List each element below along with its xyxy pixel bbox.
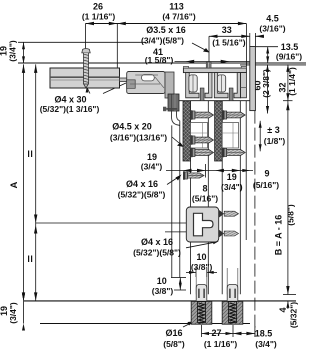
wire wall line dashed: [254, 111, 256, 335]
hanger plate door one: [165, 72, 179, 111]
rail wall-mount profile: [50, 68, 133, 88]
svg-text:(3/8"): (3/8"): [152, 286, 174, 296]
dimension 26 (1 1/16 inch): [82, 2, 247, 26]
dimension 32 (1 1/4 inch): [278, 64, 298, 100]
dimension 27 (1 1/16 inch): [202, 325, 238, 349]
svg-text:(4 7/16"): (4 7/16"): [162, 12, 195, 22]
trolley bracket door one: [127, 72, 165, 94]
dimension 60 (2 3/8 inch): [253, 64, 272, 113]
svg-text:(3/4"): (3/4"): [8, 40, 18, 62]
svg-text:(1 5/16"): (1 5/16"): [212, 38, 245, 48]
screw O4x16 bottom of door two strip: [183, 171, 204, 180]
svg-text:10: 10: [196, 252, 206, 262]
svg-text:(5/32"): (5/32"): [289, 302, 299, 328]
svg-text:113: 113: [169, 2, 184, 12]
wire extension line x209: [208, 36, 210, 61]
label screw O4.5 x 20: [110, 122, 184, 148]
wire extension tick x205.5: [205, 164, 207, 178]
svg-text:(5/8"): (5/8"): [163, 339, 185, 349]
wall mounting plate right: [250, 47, 256, 111]
dimension 113 (4 7/16 inch): [162, 2, 246, 26]
dimension 19 (3/4 inch) top left: [0, 40, 25, 63]
label screw O4 x 30: [40, 83, 126, 114]
svg-text:33: 33: [222, 25, 232, 35]
dimension 9 (5/16 inch) wall gap: [242, 169, 279, 191]
label dimension 41 (1 5/8 inch): [145, 47, 174, 65]
dimension 4 (5/32 inch) floor clearance: [278, 295, 299, 329]
svg-text:(1 1/4"): (1 1/4"): [287, 67, 297, 96]
svg-text:19: 19: [147, 152, 157, 162]
roller trolley channel two: [217, 75, 225, 92]
wire mid division line: [36, 222, 187, 224]
svg-text:(9/16"): (9/16"): [276, 52, 302, 62]
profile strip door two hatched: [183, 101, 191, 161]
svg-text:(3/4")(5/8"): (3/4")(5/8"): [141, 36, 184, 46]
screw O4.5x20 door two row three: [191, 148, 214, 158]
svg-text:10: 10: [157, 276, 167, 286]
hanger bolt door two: [200, 88, 204, 101]
label screw O4 x 16 lower: [133, 237, 219, 258]
dimension 19 (3/4 inch) bottom left: [0, 294, 25, 331]
hanger bolt door three: [229, 88, 233, 101]
svg-text:± 3: ± 3: [267, 125, 279, 135]
door three panel lines: [222, 101, 240, 295]
wire extension line x246: [245, 101, 247, 240]
wire top reference line: [18, 41, 146, 43]
dimension 41 line: [175, 60, 250, 63]
svg-text:B = A - 16: B = A - 16: [274, 215, 284, 256]
screw O4.5x20 door two row one: [191, 110, 214, 120]
profile strip door three hatched: [215, 101, 223, 161]
dimension 33 (1 5/16 inch): [209, 25, 250, 48]
label screw O3.5 x 16: [141, 25, 210, 53]
wire extension line screw axis: [85, 24, 87, 69]
connector housing door two: [191, 123, 208, 149]
door one panel lines: [172, 121, 180, 278]
svg-text:Ø4.5 x 20: Ø4.5 x 20: [112, 122, 152, 132]
svg-text:13.5: 13.5: [281, 42, 299, 52]
dimension A overall height: [9, 64, 25, 301]
svg-text:(5/32")(5/8"): (5/32")(5/8"): [133, 248, 181, 258]
dimension 18.5 (3/4 inch): [233, 326, 277, 349]
door two panel lines: [191, 101, 209, 295]
dimension 19 (3/4 inch) door two thickness: [221, 169, 243, 192]
svg-text:9: 9: [264, 169, 269, 179]
svg-text:(3/16"): (3/16"): [259, 24, 285, 34]
label dowel O16 (5/8 inch): [163, 322, 193, 350]
dimension 10 (3/8 inch) horizontal: [186, 252, 217, 277]
track end ridges: [183, 66, 246, 68]
screw O4x16 guide upper: [219, 210, 239, 218]
floor guide door two: [191, 268, 212, 324]
track double running profile: [183, 68, 246, 98]
svg-text:(1 1/16"): (1 1/16"): [82, 12, 115, 22]
label screw O4 x 16 upper: [118, 175, 182, 200]
dimension 13.5 (9/16 inch): [266, 42, 302, 63]
svg-text:(1/8"): (1/8"): [264, 136, 286, 146]
svg-text:(3/4"): (3/4"): [255, 339, 277, 349]
svg-text:(3/4"): (3/4"): [8, 302, 18, 324]
svg-text:26: 26: [93, 2, 103, 12]
dimension chain line at door bottom: [166, 170, 253, 172]
svg-text:19: 19: [227, 172, 237, 182]
screw O4.5x20 door two row two: [191, 135, 214, 145]
wire door top edge line: [168, 100, 255, 102]
hanger bend to door one: [172, 111, 180, 125]
svg-text:(3/8"): (3/8"): [191, 262, 213, 272]
svg-text:(3/4"): (3/4"): [221, 182, 243, 192]
wire lower floor line: [40, 323, 250, 325]
svg-text:A: A: [9, 181, 20, 188]
svg-text:(5/16"): (5/16"): [253, 180, 279, 190]
guide piece floor bracket: [186, 207, 218, 242]
svg-text:(5/32")(1 3/16"): (5/32")(1 3/16"): [40, 104, 100, 114]
svg-text:(3/4"): (3/4"): [141, 162, 163, 172]
wire extension line track end: [245, 24, 247, 68]
svg-text:(5/8"): (5/8"): [286, 204, 296, 226]
wire ceiling line: [18, 62, 306, 64]
screw O4x16 guide lower: [219, 230, 239, 238]
wire extension line x117: [116, 24, 118, 72]
screw O4.5x20 door three row one: [222, 110, 245, 120]
svg-text:32: 32: [278, 82, 288, 92]
svg-text:4.5: 4.5: [266, 14, 279, 24]
connector housing door three: [222, 123, 238, 149]
svg-text:4: 4: [278, 307, 288, 312]
roller trolley channel one: [189, 75, 197, 92]
screw O4.5x20 door three row three: [222, 148, 245, 158]
svg-text:(2 3/8"): (2 3/8"): [261, 69, 271, 98]
svg-text:18.5: 18.5: [255, 329, 273, 339]
svg-text:8: 8: [202, 184, 207, 194]
wire floor line: [24, 300, 296, 302]
dimension 19 (3/4 inch) door one thickness: [141, 152, 206, 172]
svg-text:Ø3.5 x 16: Ø3.5 x 16: [146, 25, 186, 35]
screw tab O3.5x16 on track: [206, 62, 211, 68]
wire right wall top line: [250, 46, 278, 48]
dimension equal segment lower: [29, 223, 38, 301]
floor guide door three: [222, 268, 243, 324]
dimension 8 (5/16 inch) gap: [192, 169, 224, 204]
svg-text:(1 5/8"): (1 5/8"): [145, 55, 174, 65]
svg-text:(5/32")(5/8"): (5/32")(5/8"): [118, 190, 166, 200]
dimension plus minus 3 (1/8 inch) adjustment: [259, 121, 286, 152]
svg-text:(5/16"): (5/16"): [192, 194, 218, 204]
svg-text:Ø4 x 16: Ø4 x 16: [141, 237, 173, 247]
dimension B equals A minus 16 (5/8 inch): [274, 101, 296, 295]
wire extension line x249.8: [249, 33, 251, 47]
dimension 10 (3/8 inch) vertical: [152, 276, 186, 296]
svg-text:(3/16")(13/16"): (3/16")(13/16"): [110, 133, 167, 143]
screw Q1 O4x30 vertical: [82, 49, 90, 89]
svg-text:27: 27: [211, 328, 221, 338]
dimension equal segment upper: [29, 64, 38, 223]
svg-text:Ø4 x 30: Ø4 x 30: [54, 95, 86, 105]
svg-text:(1 1/16"): (1 1/16"): [204, 339, 237, 349]
svg-text:Ø4 x 16: Ø4 x 16: [126, 179, 158, 189]
dimension 4.5 (3/16 inch) wall plate thickness: [255, 14, 285, 39]
adjustment bolt door one: [163, 107, 177, 112]
svg-text:Ø16: Ø16: [165, 328, 182, 338]
